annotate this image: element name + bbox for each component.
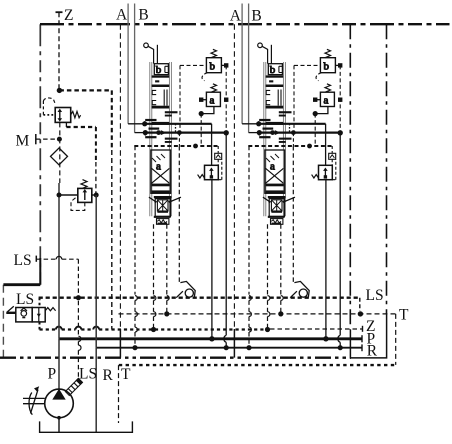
svg-text:T: T	[399, 307, 409, 324]
svg-text:A: A	[230, 8, 242, 25]
svg-text:R: R	[103, 367, 114, 384]
svg-text:T: T	[121, 366, 131, 383]
svg-text:B: B	[251, 8, 261, 25]
svg-text:LS: LS	[79, 366, 97, 383]
svg-text:B: B	[138, 7, 148, 24]
svg-text:LS: LS	[16, 291, 34, 308]
svg-text:M: M	[16, 133, 30, 150]
svg-text:R: R	[367, 343, 378, 360]
svg-text:LS: LS	[366, 287, 384, 304]
svg-text:A: A	[116, 7, 128, 24]
svg-text:Z: Z	[64, 7, 73, 24]
svg-text:LS: LS	[14, 252, 32, 269]
svg-text:P: P	[48, 366, 57, 383]
